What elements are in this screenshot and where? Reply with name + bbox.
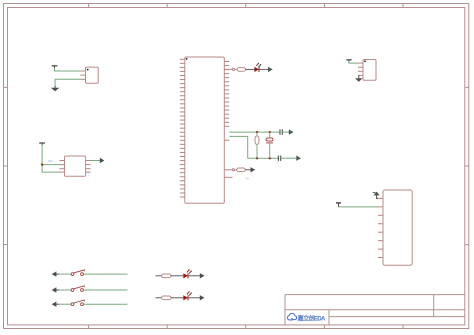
- IC U3 body: [86, 67, 99, 83]
- U1 inverted pin to R1: [224, 68, 234, 70]
- wire VCC to U3 pin1: [55, 68, 81, 71]
- wire arrow to switch S3: [59, 303, 71, 305]
- wire U1 to top rail: [229, 131, 280, 133]
- wire switch S2 output: [84, 289, 128, 291]
- capacitor C2 (top rail): [280, 129, 282, 134]
- net flag arrow (R3): [251, 167, 256, 172]
- net flag arrow (switch row 2): [52, 287, 59, 292]
- wire stub to R5: [156, 297, 162, 299]
- LED LED2: [183, 269, 192, 278]
- svg-text:3V3: 3V3: [48, 159, 53, 163]
- wire R4 to LED2: [171, 275, 183, 277]
- wire arrow to switch S2: [59, 289, 71, 291]
- net flag arrow (LED1): [268, 67, 273, 72]
- net flag arrow (U2 output): [100, 158, 105, 163]
- wire C3 to net arrow: [281, 157, 297, 159]
- IC U4 body: [363, 60, 376, 81]
- J1 left pins: [378, 198, 383, 257]
- wire R5 to LED3: [171, 297, 183, 299]
- U3 pins 1-3: [80, 71, 85, 79]
- wire switch S1 output: [84, 273, 128, 275]
- power flag up-arrow (J1 pin1): [373, 192, 380, 196]
- ground (top-right): [355, 78, 363, 82]
- capacitor C1 (electrolytic): [266, 132, 273, 158]
- IC U1 body: [185, 57, 225, 203]
- capacitor C3 (bottom rail): [278, 156, 280, 161]
- U2 left pins: [60, 161, 65, 173]
- junction dots: [256, 131, 271, 159]
- wire U4 pin4 to ground: [358, 75, 360, 78]
- net flag arrow (switch row 3): [52, 302, 59, 307]
- resistor R1: [235, 68, 246, 72]
- svg-text:IO: IO: [246, 177, 249, 181]
- net flag arrow (top rail): [289, 129, 294, 134]
- power flag T (J1 pin2): [336, 203, 341, 207]
- U4 left pins: [358, 63, 363, 75]
- svg-text:嘉立创EDA: 嘉立创EDA: [297, 314, 327, 322]
- power flag VCC (left-middle): [39, 143, 45, 145]
- net flag arrow (LED3): [200, 295, 205, 300]
- connector J1 body: [383, 190, 412, 265]
- ground (top-left): [51, 86, 60, 91]
- wire R3 to net arrow: [245, 169, 251, 171]
- wire U3 pin3 to ground: [55, 79, 80, 87]
- wire LED3 to net arrow: [188, 297, 200, 299]
- U1 inverted pin to R3: [224, 169, 234, 171]
- U1 pin-1 dot: [186, 58, 188, 60]
- junction on VCC rail: [41, 163, 43, 165]
- switch S1: [71, 270, 84, 276]
- wire VCC rail to U2 pins: [42, 145, 59, 172]
- LED LED3: [183, 291, 192, 300]
- LED LED1: [254, 63, 261, 72]
- switch S3: [71, 300, 84, 306]
- resistor R4: [162, 274, 171, 278]
- wire arrow to switch S1: [59, 273, 71, 275]
- net flag arrow (switch row 1): [52, 271, 59, 276]
- wire LED1 to net arrow: [259, 68, 268, 70]
- title block: [285, 295, 465, 325]
- IC U2 body: [65, 156, 86, 176]
- svg-text:1: 1: [88, 173, 90, 177]
- logo JLC EDA: [288, 313, 297, 320]
- U1 left pins: [180, 59, 185, 197]
- wire stub to R4: [156, 275, 162, 277]
- power flag VCC (top-left): [52, 66, 58, 68]
- wire switch S3 output: [84, 303, 128, 305]
- wire C2 to net arrow: [282, 131, 289, 133]
- U3 pin-1 dot: [87, 69, 89, 71]
- U4 pin-1 dot: [364, 60, 366, 62]
- U2 right pins: [86, 161, 91, 173]
- net flag arrow (LED2): [200, 273, 205, 278]
- switch S2: [71, 286, 84, 292]
- resistor R3: [235, 168, 246, 172]
- wire LED2 to net arrow: [188, 275, 200, 277]
- wire U2 output: [91, 160, 100, 162]
- wire U1 to bottom rail: [229, 136, 278, 158]
- resistor R5: [162, 296, 171, 300]
- wire VCC to U4 pin1: [349, 62, 358, 63]
- wire J1 pin2 to VCC flag: [339, 206, 379, 208]
- svg-text:C: C: [277, 160, 279, 164]
- wire R1 to LED1: [246, 68, 255, 70]
- power flag VCC (top-right): [346, 60, 351, 62]
- U1 right pins: [224, 62, 232, 178]
- resistor R2 (vertical): [255, 132, 259, 158]
- wire J1 pin1 to up flag: [377, 195, 378, 198]
- net flag arrow (bottom rail): [296, 156, 301, 161]
